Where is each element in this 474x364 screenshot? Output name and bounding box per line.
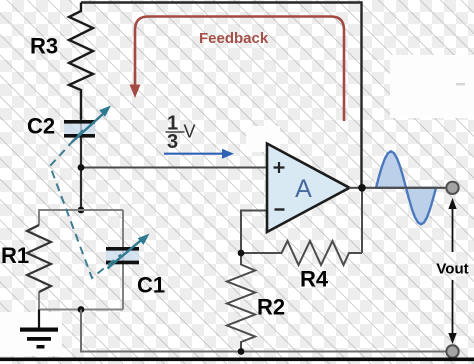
node output xyxy=(358,184,366,192)
wire bottom rail xyxy=(81,310,453,352)
op-amp U1 xyxy=(267,144,350,233)
wire to op-amp plus input xyxy=(81,167,267,169)
op-amp minus pin xyxy=(275,208,285,210)
resistor R3 xyxy=(69,3,93,120)
svg-text:C2: C2 xyxy=(27,114,55,139)
svg-text:Feedback: Feedback xyxy=(199,30,269,47)
gang dashed link C2-C1 xyxy=(50,130,121,278)
bottom border xyxy=(0,358,474,362)
ground xyxy=(20,310,58,349)
capacitor C2 xyxy=(64,106,111,143)
svg-text:R1: R1 xyxy=(1,243,29,268)
Vout dimension arrow up xyxy=(448,198,456,252)
svg-text:3: 3 xyxy=(167,131,178,153)
sine wave xyxy=(376,151,436,224)
wire feedback to minus input xyxy=(241,211,267,254)
svg-text:R2: R2 xyxy=(257,295,285,320)
wire output drop xyxy=(361,188,363,253)
terminal bottom xyxy=(446,345,458,357)
watermark dash xyxy=(456,83,465,86)
wire parallel box xyxy=(39,210,123,310)
svg-text:A: A xyxy=(295,175,312,203)
capacitor C1 xyxy=(106,234,150,269)
node bottom xyxy=(78,306,85,313)
resistor R4 xyxy=(241,241,362,265)
one third V label xyxy=(166,113,196,154)
node A xyxy=(78,164,85,171)
svg-text:R4: R4 xyxy=(300,267,329,292)
wire left branch xyxy=(80,119,82,210)
node R2 R4 junction xyxy=(238,250,245,257)
wire top loop xyxy=(81,3,362,188)
svg-text:R3: R3 xyxy=(30,34,58,59)
voltage arrow xyxy=(164,149,234,159)
node R2 bottom xyxy=(238,348,245,355)
wire output xyxy=(349,187,447,189)
node B xyxy=(78,207,85,214)
resistor R2 xyxy=(227,253,255,352)
Vout dimension arrow down xyxy=(448,280,456,344)
svg-text:Vout: Vout xyxy=(436,261,468,278)
feedback arrow xyxy=(130,17,345,122)
op-amp plus pin xyxy=(274,162,285,173)
svg-text:V: V xyxy=(184,122,196,142)
resistor R1 xyxy=(27,225,51,292)
terminal top xyxy=(446,182,458,194)
svg-text:C1: C1 xyxy=(137,273,165,298)
